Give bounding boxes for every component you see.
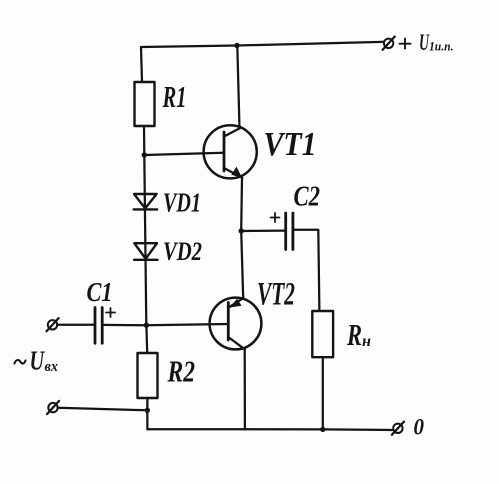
node: C1 / VD2 / R2 / VT2 base junction <box>144 323 149 328</box>
svg-text:1и.п.: 1и.п. <box>429 39 454 54</box>
resistor R2 <box>138 353 158 398</box>
node: Rn / bottom rail junction <box>320 427 325 432</box>
svg-text:R: R <box>346 317 362 352</box>
wire: VT1 emitter down to mid node <box>240 178 243 231</box>
svg-text:VD1: VD1 <box>163 188 201 218</box>
label C1 plus <box>106 308 115 317</box>
wire: VT2 collector down to bottom rail <box>244 349 246 429</box>
capacitor C2 <box>286 213 293 250</box>
diode VD2 <box>134 243 158 260</box>
label Rn <box>346 317 371 352</box>
capacitor C1 <box>95 308 102 344</box>
wire: input terminal to C1 <box>57 324 94 326</box>
wire: VT2 emitter up to mid node <box>241 231 243 298</box>
wire: R1 to base node <box>143 126 146 155</box>
node: top rail / VT1 collector junction <box>234 43 239 48</box>
transistor VT1 <box>204 125 257 178</box>
wire: C2 to Rn corner <box>293 230 319 311</box>
svg-text:VD2: VD2 <box>163 237 202 266</box>
wire: input node down to R2 <box>145 325 148 353</box>
resistor Rn <box>312 311 333 357</box>
wire: mid node to C2 <box>241 229 285 232</box>
wire: Rn to bottom rail <box>322 357 324 429</box>
svg-text:C2: C2 <box>294 182 321 213</box>
wire: lower input terminal to node <box>58 408 148 411</box>
resistor R1 <box>135 82 155 126</box>
svg-text:R1: R1 <box>162 79 187 114</box>
svg-text:U: U <box>30 346 46 376</box>
diode VD1 <box>134 194 158 209</box>
svg-text:R2: R2 <box>167 354 195 389</box>
svg-text:VT1: VT1 <box>264 126 317 163</box>
svg-text:C1: C1 <box>87 277 113 307</box>
terminal +Uип <box>383 37 395 50</box>
wire: base node to VT1 base <box>144 153 224 155</box>
label + Uип <box>400 30 454 55</box>
label ~Uвх <box>14 346 58 376</box>
svg-text:н: н <box>362 333 371 350</box>
wire: C1 to input node <box>103 324 147 327</box>
wire: R2 to lower input node <box>146 398 148 410</box>
wire: bottom rail <box>147 428 392 431</box>
svg-text:вх: вх <box>45 359 59 375</box>
terminal input bottom <box>47 401 59 414</box>
node: emitters / C2 junction <box>239 228 244 233</box>
svg-text:0: 0 <box>414 415 425 440</box>
wire: VT1 collector to top rail <box>237 46 239 129</box>
node: R1 / VD1 / VT1 base junction <box>142 152 147 157</box>
wire: top rail to R1 <box>141 47 142 82</box>
terminal input top <box>47 318 59 331</box>
wire: base node down through diodes to input node <box>144 155 146 325</box>
wire: node down to bottom rail <box>146 410 148 429</box>
node: R2 / lower input terminal junction <box>145 408 150 413</box>
wire: top supply rail <box>141 42 383 47</box>
label C2 plus <box>271 213 280 222</box>
svg-text:VT2: VT2 <box>257 277 295 313</box>
transistor VT2 <box>210 298 262 350</box>
terminal 0 <box>392 422 404 435</box>
wire: input node to VT2 base <box>146 324 228 325</box>
